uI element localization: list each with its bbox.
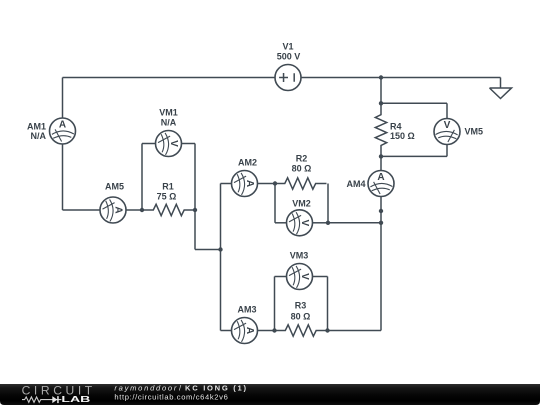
svg-text:http://circuitlab.com/c64k2v6: http://circuitlab.com/c64k2v6	[114, 392, 227, 401]
svg-text:R2: R2	[296, 154, 308, 164]
svg-text:N/A: N/A	[161, 118, 177, 128]
svg-text:R3: R3	[295, 301, 307, 311]
svg-text:N/A: N/A	[31, 131, 47, 141]
svg-text:AM3: AM3	[237, 305, 256, 315]
svg-text:A: A	[59, 120, 66, 131]
svg-text:A: A	[113, 206, 124, 213]
svg-text:AM1: AM1	[27, 122, 46, 132]
svg-text:V1: V1	[282, 42, 293, 52]
svg-text:V: V	[299, 273, 310, 280]
svg-text:VM1: VM1	[159, 108, 178, 118]
svg-text:AM5: AM5	[105, 182, 124, 192]
svg-text:LAB: LAB	[61, 394, 90, 404]
svg-text:R1: R1	[162, 182, 174, 192]
svg-text:V: V	[299, 219, 310, 226]
svg-text:V: V	[168, 140, 179, 147]
svg-text:AM2: AM2	[238, 158, 257, 168]
svg-text:VM2: VM2	[292, 199, 311, 209]
svg-text:A: A	[377, 172, 384, 183]
svg-text:75 Ω: 75 Ω	[157, 192, 177, 202]
svg-text:KC IONG (1): KC IONG (1)	[185, 384, 246, 393]
svg-text:VM3: VM3	[290, 251, 309, 261]
svg-text:A: A	[244, 327, 255, 334]
svg-text:R4: R4	[390, 122, 402, 132]
svg-text:80 Ω: 80 Ω	[292, 164, 312, 174]
svg-text:150 Ω: 150 Ω	[390, 131, 415, 141]
svg-text:VM5: VM5	[465, 127, 484, 137]
svg-text:80 Ω: 80 Ω	[291, 312, 311, 322]
svg-text:500 V: 500 V	[277, 52, 301, 62]
svg-text:AM4: AM4	[346, 179, 365, 189]
svg-text:V: V	[443, 120, 450, 131]
svg-text:raymonddoor: raymonddoor	[114, 384, 176, 393]
svg-text:A: A	[244, 180, 255, 187]
